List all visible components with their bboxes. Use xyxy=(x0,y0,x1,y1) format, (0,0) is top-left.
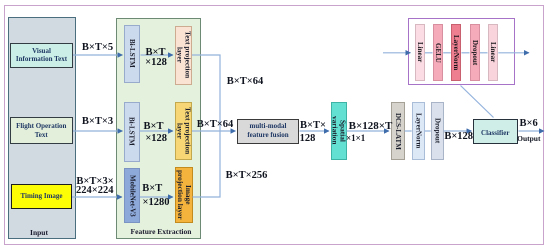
wire VIT -> Bi-LSTM1 xyxy=(73,54,123,56)
wire TI -> MobileNet xyxy=(72,196,122,198)
wire text proj 2 -> fusion xyxy=(192,130,236,132)
wire LayerNorm -> Dropout xyxy=(462,52,470,54)
wire Dropout -> Classifier xyxy=(444,130,472,132)
node Visual Information Text xyxy=(10,43,73,68)
label B×T×3× 224×224 xyxy=(76,176,113,187)
label B×T×64 (row2 bus) xyxy=(197,120,233,131)
label B×T ×128 (row1) xyxy=(146,48,166,59)
callout line detail box -> Classifier xyxy=(461,86,494,118)
label Feature Extraction xyxy=(131,227,192,238)
block Dropout xyxy=(431,102,444,160)
label B×T× 128 (fusion out) xyxy=(300,120,326,131)
wire Classifier -> output xyxy=(519,130,545,132)
block LayerNorm xyxy=(412,102,425,160)
wire LayerNorm -> Dropout xyxy=(425,130,431,132)
wire Linear2 -> out of detail box xyxy=(498,52,529,54)
classifier detail callout box xyxy=(408,18,515,86)
wire FOT -> Bi-LSTM2 xyxy=(73,130,123,132)
block Bi-LSTM (row1) xyxy=(124,25,140,83)
label B×T×256 (row3 bus) xyxy=(226,171,268,182)
label Output xyxy=(517,134,540,145)
block Linear (2) xyxy=(488,24,499,81)
wire fusion -> spatial variation xyxy=(300,130,330,132)
feature extraction container xyxy=(116,18,201,239)
label Input xyxy=(30,227,48,238)
node Timing Image xyxy=(11,184,72,209)
wire MobileNet -> image proj xyxy=(140,196,173,198)
block Text projection layer (row1) xyxy=(175,26,192,85)
block Spatial variation xyxy=(331,102,347,160)
block DCS-LATM xyxy=(391,102,404,160)
block Image projection layer (row3) xyxy=(175,167,193,223)
wire Bi-LSTM2 -> text proj 2 xyxy=(140,130,174,132)
block LayerNorm (pink) xyxy=(451,24,462,81)
wire Dropout -> Linear2 xyxy=(480,52,488,54)
wire GELU -> LayerNorm xyxy=(443,52,451,54)
block Bi-LSTM (row2) xyxy=(124,102,140,162)
block multi-modal feature fusion xyxy=(237,119,299,144)
label B×128×T ×1×1 xyxy=(349,121,393,132)
wire into detail box xyxy=(383,52,411,54)
label B×T ×1280 (row3) xyxy=(142,184,162,195)
label B×T×5 xyxy=(82,42,113,53)
block Text projection layer (row2) xyxy=(175,102,192,160)
label B×T×64 (row1 bus) xyxy=(227,77,263,88)
node Flight Operation Text xyxy=(10,117,73,144)
wire text proj 1 -> junction xyxy=(192,55,220,197)
wire Linear1 -> GELU xyxy=(425,52,433,54)
wire spatial variation -> DCS-LATM xyxy=(347,130,390,132)
block Linear (1) xyxy=(415,24,426,81)
block Dropout (pink) xyxy=(470,24,481,81)
block GELU xyxy=(433,24,444,81)
label B×6 xyxy=(519,119,537,130)
block Classifier xyxy=(473,119,518,144)
wire DCS-LATM -> LayerNorm xyxy=(405,130,412,132)
block MobileNet-V3 (row3) xyxy=(124,168,140,223)
label B×128 xyxy=(444,132,473,143)
label B×T ×128 (row2) xyxy=(144,121,164,132)
label B×T×3 xyxy=(82,117,113,128)
wire Bi-LSTM1 -> text proj 1 xyxy=(141,54,174,56)
input container xyxy=(8,17,76,239)
